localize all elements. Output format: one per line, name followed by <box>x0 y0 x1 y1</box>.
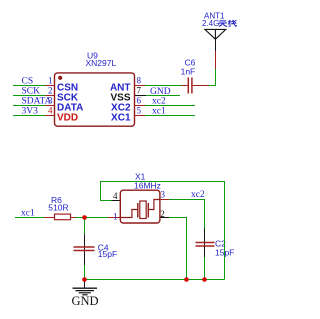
capacitor C6 right plate <box>191 78 193 94</box>
svg-text:3V3: 3V3 <box>22 107 39 117</box>
junction dot pin2/rail <box>184 277 189 282</box>
pin 2 stub (U9 SCK) <box>46 95 56 97</box>
svg-text:GND: GND <box>71 294 98 308</box>
chip U9 body <box>55 73 135 126</box>
antenna stem lower <box>215 39 217 51</box>
svg-text:VDD: VDD <box>57 112 78 123</box>
wire junction to C4 <box>84 218 86 235</box>
capacitor C4 top plate <box>74 246 95 248</box>
capacitor C6 left lead <box>182 85 188 87</box>
pin 7 stub (U9 VSS, black) <box>135 95 147 97</box>
wire xc1 <box>145 115 195 117</box>
capacitor C2 top plate <box>196 242 215 244</box>
svg-text:1: 1 <box>113 212 118 222</box>
pin 2 stub (X1, black) <box>160 217 169 219</box>
capacitor C2 pin (black) <box>204 229 206 248</box>
crystal glyph rect <box>140 201 146 219</box>
antenna ANT1 symbol <box>205 29 226 39</box>
wire C6 to antenna corner <box>209 69 216 86</box>
svg-text:510R: 510R <box>48 203 68 213</box>
svg-text:CS: CS <box>22 77 34 87</box>
crystal glyph left plate <box>137 203 139 218</box>
capacitor C4 bottom plate <box>74 250 95 252</box>
svg-text:4: 4 <box>48 106 53 116</box>
resistor R6 body <box>55 214 71 220</box>
junction dot C2/rail <box>202 277 207 282</box>
wire C2 to rail <box>204 257 206 280</box>
capacitor C2 bottom plate <box>196 245 215 247</box>
resistor R6 right lead <box>71 217 76 219</box>
svg-text:2: 2 <box>48 86 53 96</box>
antenna ANT1 pin (red) <box>215 51 217 69</box>
svg-text:7: 7 <box>137 86 142 96</box>
svg-text:8: 8 <box>137 76 142 86</box>
wire C4 to rail <box>84 265 86 280</box>
wire xc1 to R6 <box>15 217 44 219</box>
pin 8 stub (U9 ANT) <box>135 85 146 87</box>
svg-text:xc1: xc1 <box>21 208 35 218</box>
glyph 天 <box>219 21 227 27</box>
ground rail <box>85 279 225 281</box>
svg-text:XC1: XC1 <box>111 112 131 123</box>
svg-text:2: 2 <box>160 209 165 219</box>
crystal glyph right plate <box>147 203 149 218</box>
ground symbol stem <box>84 281 86 288</box>
crystal X1 green loop (pin4 to rail) <box>101 182 225 280</box>
svg-text:GND: GND <box>150 87 171 97</box>
svg-text:3: 3 <box>161 189 166 199</box>
wire SDATA <box>13 105 46 107</box>
capacitor C6 left plate <box>187 78 189 94</box>
junction dot at R6/C4 <box>82 215 87 220</box>
wire pin2 down to rail <box>169 218 187 280</box>
pin 6 stub (U9 XC2) <box>135 105 146 107</box>
svg-text:SCK: SCK <box>22 87 41 97</box>
crystal X1 body <box>120 190 160 223</box>
wire 3V3 <box>13 115 46 117</box>
pin 5 stub (U9 XC1) <box>135 115 146 117</box>
wire R6 to X1 <box>75 217 108 219</box>
svg-text:4: 4 <box>113 191 118 201</box>
wire pin8 to C6 <box>145 85 182 87</box>
pin 4 stub (U9 VDD) <box>46 115 56 117</box>
wire SCK <box>13 95 46 97</box>
svg-text:xc2: xc2 <box>152 97 166 107</box>
svg-text:16MHz: 16MHz <box>134 181 161 191</box>
svg-text:6: 6 <box>137 96 142 106</box>
ground bar 1 <box>73 287 98 289</box>
glyph 线 <box>228 20 236 27</box>
capacitor C2 bottom pin (black) <box>204 247 206 257</box>
svg-text:XN297L: XN297L <box>86 58 117 68</box>
svg-text:5: 5 <box>137 106 142 116</box>
junction dot GND <box>82 277 87 282</box>
wire loop overlay segment <box>224 237 226 259</box>
wire GND stub <box>146 95 180 97</box>
wire CS <box>13 85 46 87</box>
wire pin3 to xc2 corner <box>169 200 205 229</box>
chip U9 pin-1 dot <box>58 76 62 80</box>
svg-text:SDATA: SDATA <box>22 97 52 107</box>
wire xc2 <box>145 105 195 107</box>
svg-text:1nF: 1nF <box>181 66 196 76</box>
svg-text:2.4G: 2.4G <box>202 19 219 28</box>
pin 3 stub (X1) <box>160 199 169 201</box>
pin 1 stub (X1) <box>108 217 120 219</box>
svg-text:1: 1 <box>48 76 53 86</box>
crystal glyph leads <box>120 200 160 218</box>
pin 3 stub (U9 DATA) <box>46 105 56 107</box>
pin 1 stub (U9 CSN) <box>46 85 56 87</box>
ground bar 4 <box>82 294 87 296</box>
svg-text:xc1: xc1 <box>152 107 166 117</box>
crystal X1 pin 4 stub (black) <box>112 200 121 202</box>
capacitor C4 pin (black) <box>84 235 86 266</box>
svg-text:15pF: 15pF <box>98 249 117 259</box>
svg-text:xc2: xc2 <box>191 190 205 200</box>
capacitor C6 right lead <box>193 85 210 87</box>
resistor R6 left lead <box>44 217 55 219</box>
ground bar 3 <box>79 292 91 294</box>
ground bar 2 <box>76 290 95 292</box>
